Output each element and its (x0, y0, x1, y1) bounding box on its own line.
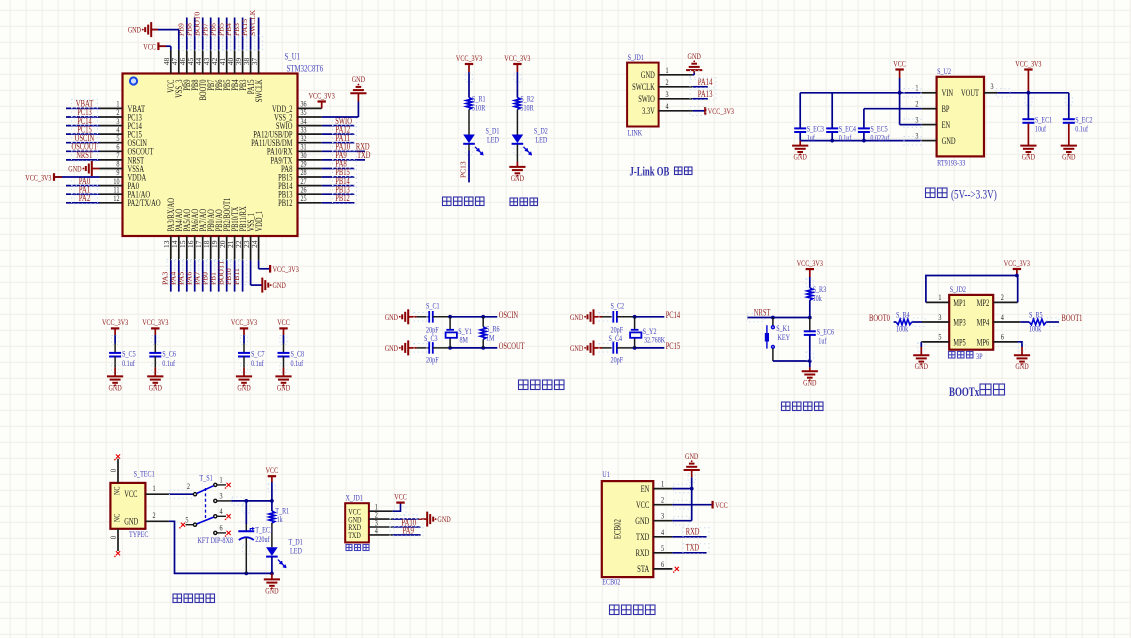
svg-text:LED: LED (290, 546, 302, 556)
svg-text:VOUT: VOUT (961, 88, 979, 98)
svg-text:OSCIN: OSCIN (499, 310, 519, 320)
svg-text:0.1uf: 0.1uf (839, 133, 852, 143)
svg-text:GND: GND (437, 514, 450, 524)
svg-text:TXD: TXD (348, 530, 361, 540)
svg-text:LED: LED (487, 135, 499, 145)
svg-text:S_R4: S_R4 (896, 309, 910, 319)
svg-text:100k: 100k (1029, 323, 1042, 333)
svg-text:S_C2: S_C2 (611, 301, 625, 311)
svg-text:100k: 100k (896, 323, 909, 333)
svg-text:0.1uf: 0.1uf (162, 358, 175, 368)
svg-text:3: 3 (915, 130, 918, 140)
svg-text:GND: GND (277, 382, 290, 392)
svg-text:1M: 1M (486, 333, 495, 343)
svg-text:VCC: VCC (277, 317, 290, 327)
svg-text:S_R5: S_R5 (1029, 309, 1043, 319)
svg-text:MP5: MP5 (953, 337, 966, 347)
svg-text:VCC: VCC (893, 58, 906, 68)
svg-text:GND: GND (128, 25, 141, 35)
svg-text:S_U2: S_U2 (937, 66, 951, 76)
svg-text:PA14: PA14 (698, 77, 713, 87)
svg-text:510R: 510R (520, 103, 534, 113)
svg-text:BOOT1: BOOT1 (1062, 313, 1083, 323)
svg-text:SWCLK: SWCLK (254, 79, 264, 102)
svg-text:LED: LED (535, 135, 547, 145)
svg-text:1: 1 (220, 475, 223, 485)
svg-text:SWIO: SWIO (638, 94, 655, 104)
svg-text:BOOT0: BOOT0 (869, 313, 890, 323)
svg-text:VCC: VCC (636, 500, 649, 510)
svg-text:VCC_3V3: VCC_3V3 (309, 90, 335, 100)
svg-text:STA: STA (637, 564, 650, 574)
svg-text:TXD: TXD (357, 150, 371, 160)
svg-text:VIN: VIN (942, 88, 954, 98)
svg-text:GND: GND (1022, 152, 1035, 162)
svg-text:12: 12 (113, 193, 119, 203)
svg-text:NRST: NRST (76, 150, 93, 160)
svg-text:PC15: PC15 (666, 341, 681, 351)
svg-text:3: 3 (991, 81, 994, 91)
svg-text:VDD_1: VDD_1 (254, 211, 264, 232)
svg-text:NC: NC (112, 486, 122, 495)
svg-text:6: 6 (661, 559, 664, 569)
svg-text:GND: GND (942, 136, 956, 146)
svg-text:0.022uf: 0.022uf (870, 133, 889, 143)
svg-text:GND: GND (794, 152, 807, 162)
svg-text:MP1: MP1 (953, 298, 966, 308)
svg-text:S_C4: S_C4 (609, 333, 623, 343)
svg-text:GND: GND (570, 343, 583, 353)
svg-text:PC14: PC14 (666, 310, 681, 320)
svg-text:1uf: 1uf (818, 335, 826, 345)
svg-text:1: 1 (153, 483, 156, 493)
svg-text:EN: EN (641, 484, 650, 494)
svg-text:2: 2 (187, 481, 190, 491)
svg-text:RT9193-33: RT9193-33 (937, 158, 965, 168)
svg-text:MP4: MP4 (977, 317, 990, 327)
svg-text:GND: GND (570, 312, 583, 322)
svg-text:VCC_3V3: VCC_3V3 (797, 258, 823, 268)
svg-text:3P: 3P (976, 351, 983, 361)
svg-text:25: 25 (301, 193, 307, 203)
svg-text:3: 3 (666, 89, 669, 99)
svg-text:1k: 1k (277, 514, 284, 524)
svg-text:GND: GND (265, 585, 278, 595)
svg-text:VCC_3V3: VCC_3V3 (231, 317, 257, 327)
svg-text:220uf: 220uf (255, 534, 269, 544)
svg-text:PC13: PC13 (459, 161, 468, 178)
svg-text:2: 2 (666, 77, 669, 87)
svg-text:GND: GND (149, 382, 162, 392)
svg-text:VCC_3V3: VCC_3V3 (1004, 258, 1030, 268)
svg-text:VCC_3V3: VCC_3V3 (102, 317, 128, 327)
svg-text:PB11: PB11 (232, 268, 241, 285)
svg-text:1: 1 (915, 83, 918, 93)
svg-text:5: 5 (661, 543, 664, 553)
svg-text:J-Link OB: J-Link OB (630, 165, 670, 179)
svg-text:0.1uf: 0.1uf (1075, 123, 1088, 133)
svg-text:20pF: 20pF (611, 355, 624, 365)
svg-text:EN: EN (942, 120, 951, 130)
svg-text:GND: GND (108, 382, 121, 392)
svg-text:VCC_3V3: VCC_3V3 (273, 264, 299, 274)
svg-text:T_S1: T_S1 (199, 472, 212, 482)
svg-text:PA9: PA9 (402, 525, 414, 535)
svg-text:GND: GND (273, 280, 286, 290)
svg-text:0: 0 (108, 469, 118, 472)
svg-text:S_C1: S_C1 (426, 301, 440, 311)
svg-text:SWCLK: SWCLK (632, 82, 655, 92)
svg-text:6: 6 (220, 522, 223, 532)
svg-text:1: 1 (661, 479, 664, 489)
svg-text:4: 4 (220, 506, 224, 516)
svg-text:32.768K: 32.768K (644, 335, 666, 345)
svg-text:6: 6 (1001, 332, 1004, 342)
svg-text:0.1uf: 0.1uf (291, 358, 304, 368)
svg-text:X_JD1: X_JD1 (346, 492, 363, 502)
svg-text:GND: GND (635, 516, 649, 526)
svg-text:PB12: PB12 (278, 198, 292, 208)
svg-text:VCC: VCC (266, 465, 279, 475)
svg-text:S_JD1: S_JD1 (628, 52, 644, 62)
svg-text:GND: GND (124, 516, 138, 526)
svg-text:S_C3: S_C3 (424, 333, 438, 343)
svg-text:4: 4 (661, 527, 665, 537)
svg-text:VCC_3V3: VCC_3V3 (1015, 58, 1041, 68)
svg-text:GND: GND (803, 377, 816, 387)
svg-text:4: 4 (375, 525, 379, 535)
svg-text:VCC: VCC (394, 491, 407, 501)
svg-text:5: 5 (185, 514, 188, 524)
svg-text:0.1uf: 0.1uf (122, 358, 135, 368)
svg-text:GND: GND (237, 382, 250, 392)
svg-text:4: 4 (1001, 312, 1005, 322)
svg-text:GND: GND (385, 343, 398, 353)
svg-text:GND: GND (1062, 152, 1075, 162)
svg-text:510R: 510R (472, 103, 486, 113)
svg-text:ECB02: ECB02 (614, 519, 624, 539)
svg-text:S_U1: S_U1 (285, 53, 301, 63)
svg-text:GND: GND (352, 74, 365, 84)
svg-text:10k: 10k (813, 293, 823, 303)
svg-text:KFT DIP-8X8: KFT DIP-8X8 (198, 535, 234, 545)
svg-text:VCC_3V3: VCC_3V3 (25, 172, 51, 182)
svg-text:ECB02: ECB02 (602, 577, 620, 587)
svg-text:GND: GND (385, 312, 398, 322)
svg-text:KEY: KEY (778, 332, 791, 342)
svg-text:LINK: LINK (628, 128, 643, 138)
svg-text:3: 3 (661, 511, 664, 521)
svg-text:OSCOUT: OSCOUT (499, 341, 525, 351)
svg-text:VCC_3V3: VCC_3V3 (456, 53, 482, 63)
svg-text:2: 2 (661, 495, 664, 505)
svg-text:MP6: MP6 (977, 337, 990, 347)
svg-text:20pF: 20pF (426, 355, 439, 365)
svg-text:GND: GND (68, 164, 81, 174)
svg-text:VCC_3V3: VCC_3V3 (142, 317, 168, 327)
svg-text:GND: GND (915, 361, 928, 371)
svg-text:BP: BP (942, 104, 950, 114)
svg-text:2: 2 (153, 510, 156, 520)
svg-text:GND: GND (1015, 361, 1028, 371)
svg-text:1: 1 (938, 292, 941, 302)
svg-text:VCC_3V3: VCC_3V3 (504, 53, 530, 63)
svg-text:SWCLK: SWCLK (248, 9, 257, 36)
svg-text:S_JD2: S_JD2 (950, 284, 966, 294)
svg-text:3: 3 (938, 312, 941, 322)
svg-text:VCC: VCC (124, 489, 137, 499)
svg-text:VCC: VCC (715, 500, 728, 510)
svg-text:GND: GND (685, 451, 698, 461)
svg-text:1uf: 1uf (807, 133, 815, 143)
svg-text:TYPEC: TYPEC (129, 529, 149, 539)
svg-text:NRST: NRST (754, 308, 771, 318)
svg-text:PA13: PA13 (698, 89, 713, 99)
svg-text:VCC: VCC (143, 42, 156, 52)
svg-text:24: 24 (250, 240, 259, 248)
svg-text:3: 3 (220, 491, 223, 501)
svg-text:STM32C8T6: STM32C8T6 (287, 65, 324, 75)
svg-text:GND: GND (688, 51, 701, 61)
svg-text:10uf: 10uf (1035, 123, 1046, 133)
svg-text:PB12: PB12 (335, 193, 349, 203)
svg-text:VCC_3V3: VCC_3V3 (708, 106, 734, 116)
svg-text:RXD: RXD (686, 527, 700, 537)
svg-text:TXD: TXD (686, 543, 700, 553)
svg-text:8M: 8M (460, 335, 469, 345)
svg-text:0.1uf: 0.1uf (251, 358, 264, 368)
svg-text:S_TEC1: S_TEC1 (134, 468, 155, 478)
svg-text:U1: U1 (602, 469, 610, 479)
svg-text:(5V-->3.3V): (5V-->3.3V) (951, 188, 997, 202)
svg-text:PA2/TX/AO: PA2/TX/AO (128, 198, 161, 208)
svg-text:RXD: RXD (636, 548, 650, 558)
svg-text:MP3: MP3 (953, 317, 966, 327)
svg-text:37: 37 (250, 57, 259, 65)
svg-text:GND: GND (511, 173, 524, 183)
svg-text:GND: GND (641, 70, 655, 80)
svg-text:TXD: TXD (636, 532, 650, 542)
svg-text:NC: NC (112, 513, 122, 522)
svg-text:2: 2 (915, 99, 918, 109)
svg-text:4: 4 (666, 101, 670, 111)
svg-text:MP2: MP2 (977, 298, 990, 308)
svg-text:1: 1 (666, 65, 669, 75)
svg-text:2: 2 (1001, 292, 1004, 302)
svg-text:PA2: PA2 (79, 193, 91, 203)
svg-text:5: 5 (938, 332, 941, 342)
svg-text:BOOTx: BOOTx (949, 385, 980, 399)
svg-text:3.3V: 3.3V (642, 106, 655, 116)
svg-text:0: 0 (108, 536, 118, 539)
